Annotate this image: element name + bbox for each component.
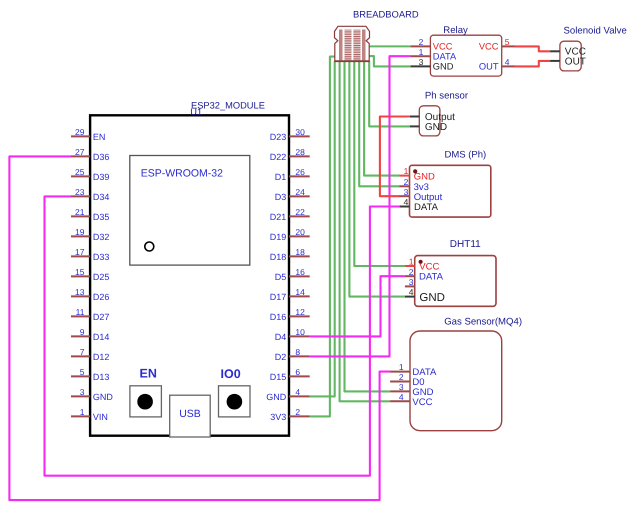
ESP32 pin 2 3V3	[270, 407, 309, 422]
svg-text:28: 28	[295, 147, 305, 157]
relay pin 4 OUT	[479, 57, 515, 72]
svg-text:1: 1	[80, 407, 85, 417]
svg-text:DATA: DATA	[414, 202, 439, 213]
svg-text:11: 11	[76, 307, 85, 317]
svg-text:GND: GND	[419, 292, 445, 304]
svg-text:D33: D33	[93, 252, 110, 262]
IO0 button	[219, 367, 251, 417]
svg-text:VCC: VCC	[433, 42, 453, 52]
svg-text:D34: D34	[93, 192, 110, 202]
ESP32 pin 21 D35	[71, 207, 109, 222]
svg-text:29: 29	[75, 127, 85, 137]
svg-text:1: 1	[399, 362, 404, 372]
svg-text:D25: D25	[93, 272, 110, 282]
svg-text:DHT11: DHT11	[450, 239, 481, 250]
ESP32 pin 9 D14	[71, 327, 109, 342]
svg-text:1: 1	[404, 166, 409, 176]
svg-text:19: 19	[75, 227, 85, 237]
svg-text:15: 15	[75, 267, 85, 277]
svg-text:Ph sensor: Ph sensor	[425, 91, 469, 102]
svg-text:D1: D1	[275, 172, 287, 182]
svg-text:D15: D15	[270, 372, 287, 382]
svg-text:D35: D35	[93, 212, 110, 222]
ESP32 pin 15 D25	[71, 267, 109, 282]
ESP32 pin 11 D27	[71, 307, 109, 322]
svg-text:D32: D32	[93, 232, 110, 242]
svg-text:2: 2	[404, 177, 409, 187]
chip pin1 circle	[145, 242, 154, 251]
ESP32 pin 7 D12	[71, 347, 109, 362]
solenoid valve box	[560, 41, 581, 71]
svg-text:16: 16	[295, 267, 305, 277]
svg-text:3: 3	[409, 277, 414, 287]
svg-text:D16: D16	[270, 312, 287, 322]
ESP32 pin 26 D1	[275, 167, 310, 182]
ESP32 pin 28 D22	[270, 147, 310, 162]
svg-text:D23: D23	[270, 132, 287, 142]
DHT11 pin 3	[405, 277, 415, 287]
svg-text:5: 5	[80, 367, 85, 377]
gas sensor pin 1 DATA	[390, 362, 437, 378]
ESP32 pin 1 VIN	[71, 407, 108, 422]
svg-text:9: 9	[80, 327, 85, 337]
wire breadboard col1 to ESP32 3V3	[310, 57, 335, 417]
svg-text:6: 6	[295, 367, 300, 377]
svg-text:D36: D36	[93, 152, 110, 162]
svg-text:4: 4	[409, 287, 414, 297]
solenoid pin OUT	[550, 57, 586, 68]
wire breadboard col8 to DMS GND	[364, 61, 400, 176]
svg-text:D18: D18	[270, 252, 287, 262]
ESP32 pin 23 D34	[71, 187, 109, 202]
svg-text:D21: D21	[270, 212, 287, 222]
svg-text:3: 3	[419, 57, 424, 67]
wire ESP32 D2 to relay DATA	[310, 56, 411, 356]
svg-text:12: 12	[295, 307, 305, 317]
svg-text:3V3: 3V3	[270, 412, 286, 422]
breadboard	[335, 26, 370, 61]
svg-text:D3: D3	[275, 192, 287, 202]
wire breadboard to relay VCC	[370, 45, 411, 47]
svg-text:D2: D2	[275, 352, 287, 362]
svg-text:20: 20	[295, 227, 305, 237]
svg-text:VCC: VCC	[479, 42, 499, 52]
wire breadboard col6 to DHT11 VCC	[354, 61, 405, 266]
DHT11 pin1 dot	[419, 260, 423, 264]
gas sensor pin 3 GND	[390, 382, 434, 398]
gas sensor pin 2 D0	[390, 372, 424, 388]
svg-text:EN: EN	[93, 132, 106, 142]
svg-text:3: 3	[404, 187, 409, 197]
relay pin 2 VCC	[411, 37, 453, 52]
svg-text:EN: EN	[140, 366, 157, 380]
svg-text:GND: GND	[425, 122, 447, 133]
svg-text:8: 8	[295, 347, 300, 357]
svg-text:4: 4	[404, 197, 409, 207]
svg-text:D14: D14	[93, 332, 110, 342]
ESP32 pin 6 D15	[270, 367, 310, 382]
ESP32 pin 14 D17	[270, 287, 310, 302]
svg-text:OUT: OUT	[479, 62, 499, 72]
svg-text:VIN: VIN	[93, 412, 108, 422]
svg-text:U1: U1	[190, 107, 202, 117]
ESP32 pin 17 D33	[71, 247, 109, 262]
svg-text:Relay: Relay	[443, 25, 468, 36]
svg-text:GND: GND	[266, 392, 287, 402]
svg-text:18: 18	[295, 247, 305, 257]
svg-text:25: 25	[75, 167, 85, 177]
wire breadboard col3 to Gas Sensor VCC	[340, 61, 391, 401]
svg-text:BREADBOARD: BREADBOARD	[353, 9, 419, 20]
relay pin 5 VCC	[479, 37, 515, 52]
svg-text:D4: D4	[275, 332, 287, 342]
svg-text:4: 4	[295, 387, 300, 397]
svg-text:DATA: DATA	[433, 52, 457, 62]
svg-text:1: 1	[409, 257, 414, 267]
ESP32 pin 19 D32	[71, 227, 109, 242]
svg-text:DATA: DATA	[419, 272, 444, 283]
ESP32 pin 27 D36	[71, 147, 109, 162]
ESP32 pin 29 EN	[71, 127, 105, 142]
wire ESP32 D4 to DHT11 DATA	[310, 276, 405, 336]
svg-text:27: 27	[75, 147, 85, 157]
relay box	[430, 35, 501, 76]
ESP32 pin 12 D16	[270, 307, 310, 322]
solenoid pin VCC	[550, 47, 586, 58]
DMS pin 3 Output	[400, 187, 443, 203]
USB connector	[170, 395, 211, 437]
svg-text:Gas Sensor(MQ4): Gas Sensor(MQ4)	[444, 316, 522, 327]
DMS pin1 dot	[413, 169, 417, 173]
svg-text:D22: D22	[270, 152, 287, 162]
svg-text:D27: D27	[93, 312, 110, 322]
svg-text:1: 1	[419, 47, 424, 57]
ESP32 pin 5 D13	[71, 367, 109, 382]
DHT11 pin 4 GND	[405, 287, 445, 304]
ESP32 pin 8 D2	[275, 347, 310, 362]
wire relay VCC to solenoid VCC	[514, 46, 550, 51]
svg-text:2: 2	[295, 407, 300, 417]
DHT11 pin 2 DATA	[405, 267, 444, 283]
svg-text:D12: D12	[93, 352, 110, 362]
svg-text:17: 17	[75, 247, 85, 257]
wire breadboard col4 to Gas Sensor GND	[345, 61, 391, 391]
svg-text:D19: D19	[270, 232, 287, 242]
gas sensor pin 4 VCC	[390, 392, 432, 408]
svg-text:GND: GND	[93, 392, 114, 402]
relay pin 3 GND	[411, 57, 454, 72]
svg-text:IO0: IO0	[221, 367, 241, 381]
svg-text:DMS (Ph): DMS (Ph)	[445, 150, 487, 161]
svg-text:21: 21	[75, 207, 85, 217]
EN button	[130, 366, 162, 417]
svg-text:10: 10	[295, 327, 305, 337]
svg-text:7: 7	[80, 347, 85, 357]
ESP32 pin 4 GND	[266, 387, 309, 402]
wire ESP32 D34 to DMS DATA	[45, 196, 400, 475]
svg-text:24: 24	[295, 187, 305, 197]
wire breadboard col5 to DHT11 GND	[349, 61, 405, 297]
wire breadboard col7 to DMS 3v3	[359, 61, 400, 186]
DHT11 box	[415, 256, 496, 307]
ESP-WROOM-32 chip	[130, 156, 250, 266]
DMS pin 4 DATA	[400, 197, 439, 213]
relay pin 1 DATA	[411, 47, 457, 62]
ESP32 pin 10 D4	[275, 327, 310, 342]
svg-text:2: 2	[409, 267, 414, 277]
svg-text:D39: D39	[93, 172, 110, 182]
Ph sensor pin GND	[410, 122, 447, 133]
ESP32 module U1 box	[90, 115, 289, 435]
svg-text:3: 3	[80, 387, 85, 397]
ESP32 pin 22 D21	[270, 207, 310, 222]
svg-text:22: 22	[295, 207, 305, 217]
svg-text:D17: D17	[270, 292, 287, 302]
wire breadboard col9 to Ph sensor GND	[369, 61, 410, 126]
svg-text:GND: GND	[433, 62, 454, 72]
ESP32 pin 18 D18	[270, 247, 310, 262]
ESP32 pin 13 D26	[71, 287, 109, 302]
wire breadboard to relay GND	[370, 56, 411, 66]
wire relay OUT to solenoid OUT	[514, 61, 550, 67]
ESP32 pin 20 D19	[270, 227, 310, 242]
svg-text:2: 2	[419, 37, 424, 47]
DHT11 pin 1 VCC	[405, 257, 440, 273]
Ph sensor box	[419, 106, 440, 136]
svg-text:4: 4	[399, 392, 404, 402]
svg-text:13: 13	[75, 287, 85, 297]
wire ESP32 D36 to Gas Sensor DATA	[9, 156, 390, 500]
svg-text:VCC: VCC	[412, 397, 432, 408]
svg-text:26: 26	[295, 167, 305, 177]
ESP32 pin 24 D3	[275, 187, 310, 202]
Gas Sensor(MQ4) box	[410, 331, 502, 431]
svg-text:23: 23	[75, 187, 85, 197]
svg-text:2: 2	[399, 372, 404, 382]
svg-text:OUT: OUT	[565, 57, 586, 68]
ESP32 pin 16 D5	[275, 267, 310, 282]
svg-text:D5: D5	[275, 272, 287, 282]
svg-text:5: 5	[505, 37, 510, 47]
svg-text:4: 4	[505, 57, 510, 67]
svg-text:ESP-WROOM-32: ESP-WROOM-32	[141, 168, 223, 180]
Ph sensor pin Output	[410, 112, 455, 123]
svg-text:14: 14	[295, 287, 305, 297]
svg-text:USB: USB	[179, 408, 201, 420]
wire Ph sensor Output to DMS Output	[380, 117, 410, 197]
DMS (Ph) box	[410, 165, 491, 217]
ESP32 pin 30 D23	[270, 127, 310, 142]
svg-text:30: 30	[295, 127, 305, 137]
svg-text:D26: D26	[93, 292, 110, 302]
svg-text:Solenoid Valve: Solenoid Valve	[564, 26, 627, 37]
ESP32 pin 25 D39	[71, 167, 109, 182]
svg-text:D13: D13	[93, 372, 110, 382]
svg-text:3: 3	[399, 382, 404, 392]
ESP32 pin 3 GND	[71, 387, 113, 402]
DMS pin 2 3v3	[400, 177, 429, 193]
DMS pin 1 GND	[400, 166, 435, 183]
wire breadboard col2 to ESP32 GND	[310, 61, 335, 396]
